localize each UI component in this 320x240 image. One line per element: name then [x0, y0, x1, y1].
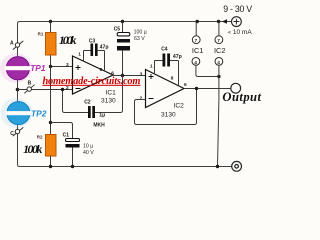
- pin 1 stub (IC2): [154, 61, 156, 75]
- svg-text:1: 1: [150, 64, 153, 70]
- wire branch to C1 top: [51, 123, 73, 139]
- terminal + (9-30V supply): [232, 17, 242, 27]
- svg-text:IC1: IC1: [106, 89, 117, 96]
- contact C arm: [13, 127, 23, 136]
- node dot feedback/output: [195, 87, 198, 90]
- svg-text:homemade-circuits.com: homemade-circuits.com: [43, 76, 141, 87]
- capacitor C5 plate + (hollow): [117, 33, 130, 36]
- svg-text:IC2: IC2: [214, 46, 226, 55]
- svg-text:100 µ: 100 µ: [134, 29, 147, 35]
- capacitor C4 plate left: [163, 54, 166, 67]
- node dot pin4 join: [217, 75, 220, 78]
- terminal output: [231, 83, 241, 93]
- capacitor C2 plate right: [92, 106, 95, 118]
- svg-text:47p: 47p: [173, 54, 182, 60]
- wire pin2 of IC1 from contact B: [18, 89, 73, 91]
- pin 7 stub IC1: [195, 22, 197, 36]
- node dot pin4 line/rail: [216, 165, 219, 168]
- node dot pin3 junction: [49, 65, 52, 68]
- svg-text:9 - 30 V: 9 - 30 V: [223, 4, 252, 14]
- capacitor C1 plate - (solid): [66, 144, 80, 148]
- svg-text:47p: 47p: [100, 44, 109, 50]
- wire pin4 rail down to 0V: [218, 65, 219, 166]
- wire IC2 output: [184, 88, 231, 90]
- terminal 0V: [232, 161, 242, 171]
- svg-text:4: 4: [217, 60, 220, 66]
- svg-text:3: 3: [66, 62, 69, 68]
- svg-text:C: C: [10, 131, 14, 137]
- pin 7 circle IC2: [215, 36, 223, 44]
- svg-text:8: 8: [171, 76, 174, 82]
- svg-text:C2: C2: [84, 100, 91, 106]
- capacitor C3 plate left: [91, 44, 94, 57]
- wire left chain (A-TP1-B-TP2-C): [18, 47, 20, 166]
- svg-text:1: 1: [78, 52, 81, 58]
- capacitor C5 plate lower (solid): [117, 46, 130, 51]
- minus sign IC2: [149, 98, 154, 100]
- capacitor C1 stub bottom: [72, 148, 74, 167]
- capacitor C5 plate (solid): [117, 39, 130, 43]
- svg-text:R2: R2: [37, 135, 43, 140]
- svg-text:4: 4: [194, 60, 197, 66]
- capacitor C5 stub bottom: [122, 51, 124, 76]
- plus sign IC2: [149, 74, 154, 79]
- capacitor C3 plate right: [95, 44, 98, 57]
- plus sign IC1: [76, 65, 81, 70]
- capacitor C2 plate left: [88, 106, 91, 118]
- wire C2 left lead from pin2 node: [63, 90, 89, 113]
- svg-text:63 V: 63 V: [134, 36, 145, 42]
- svg-text:MKH: MKH: [93, 122, 105, 128]
- node dot R1/top rail: [49, 20, 52, 23]
- svg-text:Output: Output: [222, 90, 261, 104]
- pin 7 stub IC2: [218, 22, 220, 36]
- resistor R1 stub top: [50, 22, 52, 33]
- contact B arm: [24, 85, 34, 94]
- wire bottom 0V rail: [20, 166, 232, 168]
- node dot C5/top rail: [121, 20, 124, 23]
- svg-text:100k: 100k: [59, 33, 77, 47]
- pin 8 stub (IC2): [178, 61, 180, 86]
- pin 8 stub (IC1): [104, 51, 106, 72]
- capacitor C4 leads: [155, 60, 179, 62]
- wire IC1 out to IC2 in: [113, 75, 146, 77]
- svg-text:TP1: TP1: [30, 63, 46, 73]
- svg-text:7: 7: [195, 38, 198, 44]
- svg-text:100k: 100k: [23, 142, 42, 156]
- touch plate TP2: [1, 98, 33, 128]
- svg-text:10 mA: 10 mA: [233, 29, 252, 36]
- svg-text:3130: 3130: [161, 112, 176, 119]
- pin 7 circle IC1: [192, 36, 200, 44]
- svg-text:C1: C1: [63, 133, 70, 139]
- node dot left rail at B: [16, 88, 20, 92]
- svg-text:1µ: 1µ: [99, 112, 105, 118]
- svg-text:7: 7: [217, 38, 220, 44]
- contact A arm: [13, 41, 23, 50]
- svg-text:40 V: 40 V: [83, 150, 94, 156]
- node dot C1 branch: [49, 121, 52, 124]
- capacitor C3 leads: [84, 50, 105, 52]
- wire top supply rail: [18, 22, 232, 48]
- resistor R2 stub bottom: [50, 156, 52, 167]
- svg-text:C4: C4: [161, 47, 168, 53]
- touch plate TP1: [0, 53, 32, 83]
- svg-text:10 µ: 10 µ: [83, 144, 93, 150]
- minus sign IC1: [76, 88, 81, 90]
- wire C2 right lead riser: [95, 76, 123, 113]
- wire IC2 feedback pin2 loop: [135, 89, 197, 125]
- wire R1/R2 junction to IC1 pin3: [51, 66, 73, 68]
- wire vertical R1-R2: [50, 67, 52, 135]
- svg-text:A: A: [10, 41, 14, 47]
- svg-text:2: 2: [140, 95, 143, 101]
- resistor R1 stub bottom: [50, 55, 52, 67]
- svg-text:6: 6: [184, 82, 187, 88]
- node dot IC2 pin7 stub/top rail: [217, 20, 220, 23]
- capacitor C5 stub top: [122, 22, 124, 33]
- node dot C1/rail: [71, 165, 74, 168]
- svg-text:R1: R1: [38, 31, 44, 36]
- contact A: [15, 43, 19, 47]
- pin 4 circle IC2: [215, 58, 223, 66]
- current arrow 10 mA: [222, 19, 227, 24]
- node dot IC1 pin7 stub/top rail: [196, 20, 199, 23]
- pin 1 stub (IC1): [83, 51, 85, 62]
- capacitor C1 plate + (hollow): [66, 139, 80, 142]
- node dot C5/C2/out wire: [121, 74, 124, 77]
- node dot R2/rail: [49, 165, 52, 168]
- svg-text:C3: C3: [89, 38, 96, 44]
- svg-text:3130: 3130: [101, 98, 116, 105]
- svg-text:8: 8: [100, 67, 103, 73]
- resistor R1: [46, 33, 57, 56]
- svg-text:C5: C5: [114, 27, 121, 33]
- contact B: [27, 87, 31, 91]
- contact C: [15, 129, 19, 133]
- op-amp U2 (IC2 3130) triangle: [146, 70, 185, 108]
- wire pin4 IC1 to pin4 IC2: [196, 65, 219, 76]
- op-amp U1 (IC1 3130) triangle: [73, 56, 114, 94]
- svg-text:B: B: [28, 81, 32, 87]
- pin 4 circle IC1: [192, 58, 200, 66]
- node dot pin2/C2: [61, 88, 64, 91]
- capacitor C4 plate right: [167, 54, 170, 67]
- svg-text:IC1: IC1: [192, 46, 204, 55]
- resistor R2: [46, 135, 57, 157]
- svg-text:TP2: TP2: [31, 109, 47, 119]
- svg-text:IC2: IC2: [174, 102, 185, 109]
